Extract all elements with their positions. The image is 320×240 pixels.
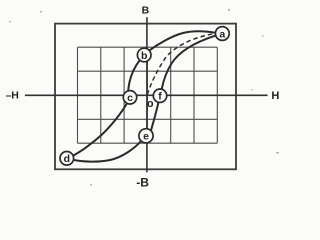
svg-text:c: c [127, 92, 133, 104]
node a [215, 27, 229, 41]
lower branch curve e-f [151, 102, 159, 130]
dashed initial magnetization curve o-a [147, 34, 215, 95]
svg-text:H: H [271, 90, 279, 102]
outer rectangle [55, 24, 236, 170]
node d [60, 152, 74, 166]
lower branch curve f-a [162, 35, 216, 89]
B axis [146, 17, 148, 172]
svg-text:-B: -B [136, 176, 149, 190]
node c [123, 91, 136, 104]
node f [153, 89, 166, 103]
svg-text:e: e [143, 131, 149, 143]
node e [139, 129, 153, 143]
grid 6x4 [78, 47, 218, 143]
upper branch curve a-b [149, 31, 215, 50]
upper branch curve c-d [73, 104, 127, 156]
svg-text:o: o [147, 98, 154, 110]
node b [137, 48, 151, 62]
svg-text:a: a [219, 28, 225, 40]
H axis [25, 94, 268, 96]
scan speckles [9, 9, 279, 186]
svg-text:B: B [142, 5, 150, 17]
svg-text:–H: –H [5, 90, 18, 102]
upper branch curve b-c [128, 61, 139, 94]
lower branch curve d-e [74, 141, 142, 162]
svg-text:b: b [141, 50, 147, 62]
svg-text:f: f [158, 91, 162, 103]
svg-text:d: d [64, 153, 70, 165]
